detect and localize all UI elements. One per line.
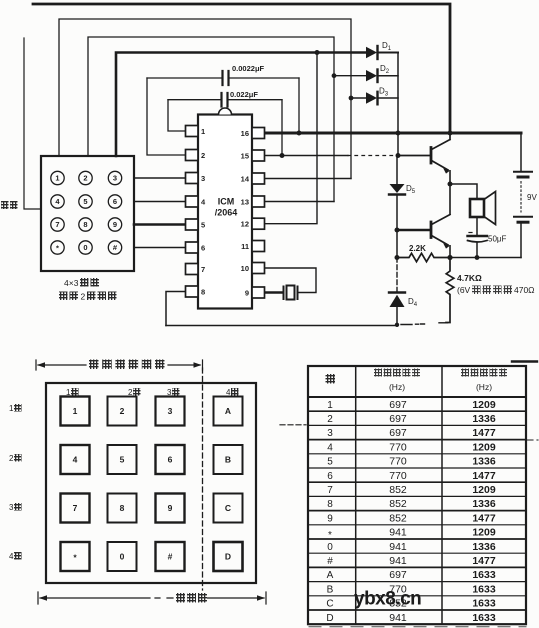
svg-text:2.2K: 2.2K — [409, 244, 426, 253]
label each-key-2-contacts caption — [59, 292, 117, 302]
keypad buttons row2 — [51, 195, 122, 208]
wire pin15 to transistor base (part dashed) — [265, 155, 348, 157]
svg-text:8: 8 — [83, 220, 87, 229]
row headers 1..4 hang — [9, 404, 22, 561]
svg-text:852: 852 — [389, 512, 407, 524]
wire branch to pin12 — [265, 53, 317, 224]
svg-text:1477: 1477 — [472, 470, 496, 482]
svg-text:6: 6 — [327, 471, 333, 482]
node junction col1/D3 — [349, 96, 354, 101]
svg-text:2: 2 — [327, 414, 333, 425]
svg-text:4.7KΩ: 4.7KΩ — [457, 273, 482, 283]
wire keypad row3 to pin5 (thick) — [134, 223, 186, 226]
crystal X1 — [284, 286, 298, 300]
svg-text:ICM: ICM — [218, 197, 235, 207]
wire pin13 — [265, 201, 334, 203]
key hash — [156, 542, 185, 571]
key A — [214, 397, 243, 426]
wire pin14 — [265, 178, 351, 180]
svg-text:2: 2 — [81, 292, 86, 302]
column headers 1..4 lie — [66, 388, 239, 397]
svg-text:697: 697 — [389, 427, 407, 439]
svg-text:9: 9 — [327, 513, 333, 524]
svg-text:0: 0 — [83, 243, 87, 252]
svg-text:697: 697 — [389, 569, 407, 581]
svg-text:4: 4 — [73, 455, 78, 465]
svg-text:1209: 1209 — [472, 399, 496, 411]
svg-text:4: 4 — [327, 442, 333, 453]
svg-text:1633: 1633 — [472, 583, 496, 595]
svg-text:(6V: (6V — [457, 285, 471, 295]
svg-text:10: 10 — [241, 264, 249, 273]
svg-text:*: * — [56, 244, 59, 253]
label 4x3 keypad caption — [64, 278, 99, 288]
svg-text:5: 5 — [327, 457, 333, 468]
svg-text:11: 11 — [241, 242, 249, 251]
svg-text:5: 5 — [83, 197, 87, 206]
svg-text:3: 3 — [168, 406, 173, 416]
svg-text:D2: D2 — [380, 64, 390, 75]
svg-text:C: C — [225, 503, 231, 513]
svg-text:852: 852 — [389, 498, 407, 510]
node speaker-cap bottom junction — [475, 255, 480, 260]
key 3 — [156, 397, 185, 426]
key C — [214, 494, 243, 523]
node 2.2K left junction — [395, 255, 400, 260]
header label low freq group — [374, 369, 420, 393]
svg-text:7: 7 — [327, 485, 333, 496]
wire speaker feed — [450, 184, 477, 199]
keypad buttons row1 — [51, 171, 122, 184]
IC notch — [219, 108, 232, 115]
wire keypad column1 to pin14 net — [59, 19, 351, 179]
svg-text:2: 2 — [120, 406, 125, 416]
svg-text:#: # — [168, 552, 173, 562]
key 7 — [61, 494, 90, 523]
wire bottom ground bus — [166, 325, 397, 327]
wire D3 anode — [351, 97, 366, 99]
svg-text:941: 941 — [389, 555, 407, 567]
table column separators — [356, 366, 442, 624]
keypad buttons row3 — [51, 218, 122, 231]
svg-text:16: 16 — [241, 129, 249, 138]
table header bottom rule — [308, 396, 526, 398]
svg-text:A: A — [327, 570, 334, 581]
wire keypad row2 to pin4 — [134, 201, 186, 203]
svg-text:2: 2 — [83, 174, 87, 183]
wire pin8 to bottom bus — [166, 292, 186, 326]
svg-text:A: A — [225, 406, 231, 416]
svg-text:3: 3 — [201, 174, 205, 183]
key 0 — [108, 542, 137, 571]
key star — [61, 542, 90, 571]
svg-text:1633: 1633 — [472, 612, 496, 624]
key 9 — [156, 494, 185, 523]
svg-text:1336: 1336 — [472, 498, 496, 510]
key 2 — [108, 397, 137, 426]
diode D2 — [366, 70, 398, 83]
svg-text:770: 770 — [389, 456, 407, 468]
svg-text:1633: 1633 — [472, 569, 496, 581]
svg-text:3: 3 — [9, 503, 14, 512]
svg-text:7: 7 — [55, 220, 59, 229]
wire Q2 emitter down — [449, 246, 451, 258]
key D — [214, 542, 243, 571]
wire keypad column3 to diode D1 (thick) — [116, 53, 366, 157]
svg-text:8: 8 — [120, 503, 125, 513]
node pin16/diode-bus junction — [396, 131, 401, 136]
svg-text:852: 852 — [389, 484, 407, 496]
IC U1 body — [198, 115, 252, 309]
svg-text:ybx8.cn: ybx8.cn — [354, 589, 421, 610]
header label key — [326, 374, 336, 384]
svg-text:*: * — [73, 553, 77, 563]
wire D2 anode — [334, 75, 366, 77]
label standard telephone keypad — [89, 360, 165, 370]
IC pins left column — [186, 126, 199, 298]
table key column values — [326, 400, 333, 624]
svg-text:13: 13 — [241, 198, 249, 207]
svg-text:D: D — [225, 552, 231, 562]
svg-text:9V: 9V — [527, 193, 537, 202]
IC pin numbers left 1-8 — [201, 127, 206, 297]
svg-text:697: 697 — [389, 413, 407, 425]
svg-text:770: 770 — [389, 441, 407, 453]
wire top common bus (thick) — [33, 4, 450, 133]
transistor Q2 — [431, 215, 450, 249]
node pin16/cap junction — [297, 131, 302, 136]
svg-text:3: 3 — [327, 428, 333, 439]
transistor Q1 — [431, 133, 450, 174]
diode D4 — [389, 258, 405, 325]
svg-text:15: 15 — [241, 152, 249, 161]
table low frequency values — [389, 399, 407, 624]
svg-text:#: # — [327, 556, 333, 567]
node Q2 base junction — [395, 228, 400, 233]
key 4 — [61, 445, 90, 474]
key 6 — [156, 445, 185, 474]
svg-text:12: 12 — [241, 220, 249, 229]
speaker LS1 — [470, 192, 496, 225]
keypad diagram dashed column divider — [202, 368, 204, 590]
resistor R2 4.7K — [446, 258, 454, 323]
keypad diagram outer box — [46, 383, 256, 583]
svg-text:941: 941 — [389, 612, 407, 624]
node R2 top junction — [447, 255, 452, 260]
key B — [214, 445, 243, 474]
svg-text:B: B — [327, 584, 334, 595]
svg-text:1209: 1209 — [472, 484, 496, 496]
capacitor C2 0.022uF — [168, 93, 282, 156]
svg-text:1: 1 — [327, 400, 333, 411]
wire Q1 emitter to Q2 collector — [449, 171, 451, 214]
diode D3 — [366, 92, 398, 105]
capacitor C3 50uF polarized — [468, 233, 488, 258]
IC pin numbers right 16-9 — [241, 129, 250, 298]
IC label ICM /2064 — [215, 197, 238, 218]
wire common button line — [24, 38, 41, 209]
svg-text:8: 8 — [327, 499, 333, 510]
svg-text:(Hz): (Hz) — [389, 382, 405, 392]
wire diode cathode bus — [397, 53, 399, 156]
key 1 — [61, 397, 90, 426]
diode D1 — [366, 46, 398, 59]
wire keypad row4 to pin6 — [134, 247, 186, 249]
scan artifact dashes — [280, 424, 306, 426]
svg-text:#: # — [113, 243, 118, 252]
label full keypad — [176, 593, 207, 603]
node pin15/diode-bus junction — [396, 153, 401, 158]
resistor R1 2.2K — [397, 253, 450, 261]
svg-text:2: 2 — [201, 151, 205, 160]
wire pin16 to battery positive (thick) — [265, 132, 521, 135]
svg-text:1477: 1477 — [472, 555, 496, 567]
svg-text:1209: 1209 — [472, 441, 496, 453]
svg-text:9: 9 — [168, 503, 173, 513]
keypad buttons row4 — [51, 241, 122, 254]
svg-text:6: 6 — [201, 244, 205, 253]
svg-text:1336: 1336 — [472, 413, 496, 425]
wire speaker to cap — [476, 217, 478, 235]
svg-text:5: 5 — [120, 455, 125, 465]
svg-text:1336: 1336 — [472, 456, 496, 468]
svg-text:14: 14 — [241, 175, 250, 184]
svg-text:D3: D3 — [379, 87, 389, 98]
svg-text:B: B — [225, 455, 231, 465]
svg-text:D5: D5 — [406, 184, 416, 195]
svg-text:697: 697 — [389, 399, 407, 411]
svg-text:D: D — [326, 613, 333, 624]
keypad box 4x3 — [41, 156, 134, 271]
svg-text:9: 9 — [113, 220, 117, 229]
svg-text:4×3: 4×3 — [64, 278, 79, 288]
svg-text:6: 6 — [113, 197, 117, 206]
svg-text:(Hz): (Hz) — [476, 382, 492, 392]
svg-text:50μF: 50μF — [488, 235, 507, 244]
svg-text:8: 8 — [201, 288, 205, 297]
svg-text:6: 6 — [168, 455, 173, 465]
label anniu (button) — [1, 201, 9, 209]
svg-text:7: 7 — [201, 265, 205, 274]
wire pin10 to crystal — [265, 268, 316, 293]
svg-text:C: C — [326, 599, 333, 610]
svg-text:4: 4 — [55, 197, 60, 206]
svg-text:941: 941 — [389, 527, 407, 539]
svg-text:1: 1 — [55, 174, 59, 183]
svg-text:470Ω: 470Ω — [514, 285, 535, 295]
svg-text:/2064: /2064 — [215, 208, 238, 218]
wire Q2 base (thick) — [397, 229, 430, 231]
svg-text:D4: D4 — [408, 297, 418, 308]
svg-text:1633: 1633 — [472, 598, 496, 610]
key 5 — [108, 445, 137, 474]
svg-text:D1: D1 — [382, 41, 392, 52]
IC pins right column — [252, 128, 265, 299]
node junction col2/D2 — [332, 73, 337, 78]
key 8 — [108, 494, 137, 523]
svg-text:7: 7 — [73, 503, 78, 513]
svg-text:*: * — [328, 530, 332, 541]
battery BT1 9V — [514, 133, 532, 258]
wire pin9 to crystal — [265, 291, 283, 293]
svg-text:5: 5 — [201, 221, 205, 230]
node junction col3/pin12 — [315, 50, 320, 55]
diode D5 — [389, 156, 405, 258]
svg-text:0.0022μF: 0.0022μF — [232, 64, 265, 73]
node cap2/pin15 junction — [280, 153, 285, 158]
svg-text:941: 941 — [389, 541, 407, 553]
node speaker tap junction — [448, 182, 453, 187]
svg-text:1336: 1336 — [472, 541, 496, 553]
dimension full keypad — [38, 592, 266, 604]
svg-text:1477: 1477 — [472, 512, 496, 524]
wire keypad row1 to pin3 — [134, 177, 186, 179]
key labels — [73, 406, 231, 563]
wire keypad column2 to pin13 net — [88, 37, 334, 202]
header label high freq group — [461, 369, 507, 393]
svg-text:0: 0 — [120, 552, 125, 562]
svg-text:1209: 1209 — [472, 527, 496, 539]
svg-text:1: 1 — [201, 127, 205, 136]
frequency table outer border — [308, 366, 526, 624]
svg-text:3: 3 — [113, 174, 117, 183]
wire emitter node to battery negative — [450, 257, 521, 259]
svg-text:2: 2 — [9, 454, 14, 463]
svg-text:4: 4 — [9, 552, 14, 561]
table row rules — [308, 410, 526, 412]
dimension standard-telephone-keypad — [36, 360, 203, 370]
svg-text:0.022μF: 0.022μF — [230, 90, 258, 99]
node pin16/top-line junction — [448, 131, 453, 136]
svg-text:1: 1 — [73, 406, 78, 416]
svg-text:1477: 1477 — [472, 427, 496, 439]
svg-text:9: 9 — [245, 289, 249, 298]
svg-text:770: 770 — [389, 470, 407, 482]
capacitor C1 0.0022uF — [147, 71, 299, 155]
svg-text:0: 0 — [327, 542, 333, 553]
label 6V supply note — [457, 285, 535, 295]
svg-text:1: 1 — [9, 404, 14, 413]
keypad button digits — [55, 174, 118, 253]
table high frequency values — [472, 399, 496, 624]
